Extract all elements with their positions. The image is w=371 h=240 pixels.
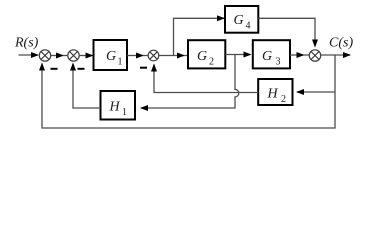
svg-text:4: 4: [246, 21, 251, 32]
block G1: [94, 40, 128, 70]
wire sum1 to sum2: [51, 55, 63, 57]
svg-text:H: H: [267, 87, 279, 102]
wire sum2 to G1: [79, 55, 92, 57]
wire G1 to sum3: [127, 55, 143, 57]
block G2: [188, 40, 225, 68]
wire takeoff node A up to G4: [174, 18, 225, 55]
svg-text:G: G: [106, 49, 116, 64]
summing junction sum1: [39, 50, 50, 61]
summing junction sum3: [148, 50, 159, 61]
wire output sum4 to C(s) with takeoff node C: [321, 54, 350, 56]
summing junction sum4: [309, 50, 320, 61]
svg-text:2: 2: [281, 94, 286, 105]
block G4: [225, 6, 258, 33]
summing junction sum2: [68, 50, 79, 61]
wire H1 output to sum2 bottom: [73, 64, 101, 109]
wire sum3 to G2 with takeoff node A: [159, 55, 184, 57]
wire node C down (outer feedback + H2 input branch): [42, 55, 335, 128]
svg-text:G: G: [234, 13, 244, 28]
svg-text:R(s): R(s): [14, 36, 39, 51]
svg-text:H: H: [109, 100, 121, 115]
svg-text:1: 1: [118, 57, 123, 68]
svg-text:G: G: [197, 49, 207, 64]
minus sign at sum2: [78, 68, 85, 70]
wire takeoff node B down with hop over H2 line, to H1 input: [141, 55, 239, 109]
svg-text:3: 3: [276, 57, 281, 68]
block G3: [253, 40, 290, 68]
wire G2 to G3 with takeoff node B: [225, 54, 250, 56]
minus sign at sum1: [51, 68, 58, 70]
svg-text:C(s): C(s): [329, 36, 353, 51]
block H1: [101, 91, 136, 120]
svg-text:2: 2: [209, 57, 214, 68]
svg-text:1: 1: [122, 107, 127, 118]
svg-text:G: G: [262, 49, 272, 64]
minus sign at sum3: [140, 67, 147, 69]
wire G3 to sum4: [290, 54, 304, 56]
wire H2 output to sum3 bottom: [154, 65, 258, 93]
wire G4 to sum4 (down into top): [258, 18, 315, 46]
block H2: [258, 79, 292, 105]
wire input R(s) to sum1: [19, 54, 39, 56]
wire branch to H2 input: [297, 91, 335, 93]
